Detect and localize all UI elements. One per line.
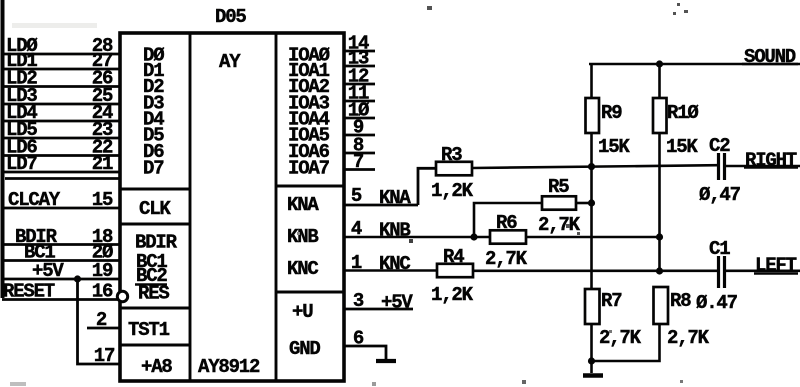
svg-text:LD7: LD7 [6, 153, 37, 175]
right column section lines [276, 185, 344, 188]
svg-text:KNB: KNB [379, 220, 410, 242]
wire IOA pin 12 [344, 83, 375, 86]
svg-text:CLCAY: CLCAY [8, 189, 61, 211]
wire KNA riser to R3 [418, 168, 436, 205]
junction R5 / RIGHT column [588, 199, 595, 206]
wire LDØ to pin 28 [2, 53, 121, 56]
junction LEFT row / R10 column [656, 267, 663, 274]
svg-text:D7: D7 [143, 158, 164, 180]
svg-text:1,2K: 1,2K [431, 284, 474, 306]
resistor R8 [654, 287, 669, 324]
svg-text:5: 5 [351, 185, 362, 207]
wire KNC from pin 1 [344, 269, 437, 272]
svg-text:1: 1 [351, 252, 362, 274]
IC U1 AY8912 outer body [120, 33, 344, 381]
svg-text:7: 7 [353, 151, 364, 173]
svg-text:3: 3 [353, 290, 364, 312]
BC2 overline/underline [135, 283, 167, 285]
wire LD4 to pin 24 [2, 120, 121, 123]
svg-text:GND: GND [289, 338, 320, 360]
wire GND pin 6 [344, 346, 386, 361]
svg-text:TST1: TST1 [128, 319, 170, 341]
svg-text:KNB: KNB [287, 226, 318, 248]
svg-text:2,7K: 2,7K [599, 327, 642, 349]
wire stub pin 2 [87, 327, 120, 330]
wire RIGHT node from R3 to C2 (slight scan slope) [472, 165, 717, 168]
svg-text:2: 2 [96, 309, 107, 331]
svg-text:R8: R8 [670, 290, 691, 312]
svg-text:15: 15 [92, 189, 113, 211]
wire SOUND rail [589, 63, 800, 66]
wire +5V stub pin 3 [344, 308, 413, 311]
svg-text:R4: R4 [443, 246, 464, 268]
wire IOA pin 9 [344, 134, 375, 137]
wire IOA pin 14 [344, 50, 375, 53]
svg-text:21: 21 [92, 153, 113, 175]
inverter bubble on RES pin 16 [117, 291, 127, 301]
svg-text:KNC: KNC [287, 258, 318, 280]
wire R8 bottom to ground node [592, 324, 660, 361]
wire KNB from pin 4 [344, 236, 660, 239]
wire LEFT output [725, 269, 800, 272]
svg-text:+U: +U [292, 301, 313, 323]
junction ground node [588, 357, 595, 364]
wire LD5 to pin 23 [2, 137, 121, 140]
svg-text:KNA: KNA [379, 187, 411, 209]
resistor R3 [436, 162, 472, 176]
wire R10 top [658, 64, 661, 98]
resistor R9 [586, 98, 600, 133]
svg-text:+A8: +A8 [141, 356, 172, 378]
LEFT label underline [754, 272, 798, 275]
svg-text:+5V: +5V [381, 292, 413, 314]
wire IOA pin 11 [344, 100, 375, 103]
svg-text:R1Ø: R1Ø [667, 102, 698, 124]
data bus ladder bottom line [5, 177, 120, 180]
ground symbol R7/R8 [583, 373, 603, 378]
resistor R5 [542, 196, 576, 209]
svg-text:R6: R6 [496, 212, 517, 234]
wire RESET to pin 16 [2, 298, 118, 301]
wire +5V to pin 19 [2, 278, 121, 281]
wire IOA pin 13 [344, 65, 375, 68]
resistor R7 [585, 289, 600, 324]
svg-text:2,7K: 2,7K [538, 214, 581, 236]
svg-text:R7: R7 [601, 290, 622, 312]
svg-text:KNC: KNC [379, 253, 410, 275]
inner separator left column [189, 33, 192, 381]
SOUND label underline [742, 63, 798, 66]
svg-text:R5: R5 [548, 176, 569, 198]
capacitor C1 [717, 256, 720, 288]
resistor R6 [490, 230, 526, 243]
left column section lines [120, 188, 190, 191]
svg-text:+5V: +5V [32, 260, 64, 282]
svg-text:D05: D05 [215, 6, 246, 28]
junction SOUND / R10 [656, 60, 663, 67]
inner separator right column [275, 33, 278, 381]
wire R10 bottom crossing RIGHT row to LEFT node [658, 133, 661, 271]
svg-text:RES: RES [138, 283, 169, 305]
wire riser KNB to R5 [474, 203, 542, 237]
wire R9 top [590, 64, 593, 98]
capacitor C2 [717, 153, 720, 180]
svg-text:RESET: RESET [3, 281, 55, 303]
svg-text:16: 16 [92, 281, 113, 303]
wire LD1 to pin 27 [2, 68, 121, 71]
svg-text:Ø.47: Ø.47 [696, 292, 738, 314]
wire R5 to RIGHT column [576, 202, 592, 205]
wire LD6 to pin 22 [2, 154, 121, 157]
wire R9 bottom to RIGHT [590, 133, 593, 167]
svg-text:CLK: CLK [139, 198, 171, 220]
wire to ground [590, 361, 593, 373]
wire +5V down to pin 17 [78, 279, 121, 364]
wire LEFT node from R4 to C1 [473, 269, 717, 272]
wire BC1 to pin 20 [2, 259, 121, 262]
left page border line [1, 0, 5, 298]
wire R7 bottom [590, 324, 593, 361]
svg-text:15K: 15K [666, 136, 698, 158]
svg-text:2,7K: 2,7K [667, 327, 710, 349]
wire RIGHT output [724, 165, 800, 168]
svg-text:R3: R3 [441, 144, 462, 166]
wire IOA pin 7 [344, 168, 375, 171]
svg-text:KNA: KNA [287, 194, 319, 216]
svg-text:17: 17 [94, 345, 115, 367]
svg-text:Ø,47: Ø,47 [699, 184, 741, 206]
svg-text:2,7K: 2,7K [485, 248, 528, 270]
svg-text:AY: AY [219, 51, 241, 73]
junction RIGHT / R9 [588, 163, 595, 170]
wire CLCAY to pin 15 [2, 207, 121, 210]
svg-text:15K: 15K [598, 136, 630, 158]
wire KNA from pin 5 [344, 204, 418, 207]
wire LD2 to pin 26 [2, 85, 121, 88]
junction KNB row / R10 column [656, 233, 663, 240]
wire RIGHT column down to R7 [590, 167, 593, 289]
RIGHT label underline [744, 166, 798, 169]
junction +5V riser [74, 275, 81, 282]
svg-text:R9: R9 [601, 102, 622, 124]
wire BDIR to pin 18 [2, 243, 121, 246]
wire IOA pin 8 [344, 152, 375, 155]
ground symbol chip GND [376, 359, 396, 363]
wire LD7 to pin 21 [2, 171, 121, 174]
resistor R10 [653, 98, 667, 133]
svg-text:IOA7: IOA7 [288, 158, 330, 180]
svg-text:1,2K: 1,2K [431, 180, 474, 202]
svg-text:AY8912: AY8912 [198, 356, 260, 378]
svg-text:19: 19 [92, 260, 113, 282]
svg-text:4: 4 [351, 218, 362, 240]
svg-text:6: 6 [353, 328, 364, 350]
resistor R4 [437, 264, 473, 277]
wire LD3 to pin 25 [2, 103, 121, 106]
wire IOA pin 1Ø [344, 117, 375, 120]
junction KNB / R5 riser [470, 233, 477, 240]
